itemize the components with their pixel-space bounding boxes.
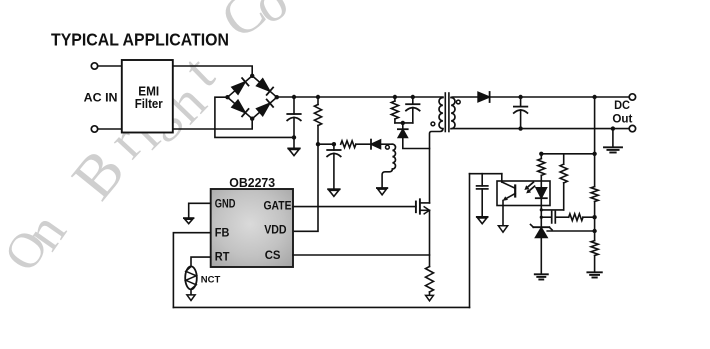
svg-text:FB: FB [215,228,230,240]
resistor R9 current sense [426,267,434,296]
DC Out terminal + [629,94,635,100]
ground arrow opto emitter [498,226,507,232]
wire AC top to EMI [98,65,122,67]
wire VDD node to cap [318,143,334,145]
AC input terminal top [91,63,97,69]
svg-text:OB2273: OB2273 [229,175,275,190]
junction comp left [540,216,543,219]
wire primary bottom to drain [430,129,443,203]
wire D6 to drain node [403,138,430,149]
wire source down [429,210,431,266]
pin label GATE [264,201,292,213]
diode D5 aux [371,140,381,149]
wire to output ground [612,129,614,147]
junction bridge left [225,95,229,99]
junction bridge top [250,74,254,78]
wire R2 to D5 [356,143,371,145]
junction snubber diode [401,121,405,125]
wire divider mid [594,217,596,231]
junction feedback node left [539,152,543,156]
ground arrow under R9 [426,295,434,300]
label Out [612,112,632,126]
earth ground divider [587,272,601,277]
wire FB top line [470,173,502,175]
svg-text:CS: CS [265,250,281,262]
phase dot secondary [456,100,460,104]
wire R7 to cathode node [541,209,563,211]
phase dot aux winding [386,145,390,149]
junction bridge right [275,95,279,99]
resistor R2 aux [341,141,356,148]
svg-text:Filter: Filter [135,97,163,111]
wire bridge left to ground bus [215,97,294,137]
resistor R5 lower divider [591,231,598,272]
capacitor C2 VDD [327,144,341,189]
ground (primary) under C1 [288,148,300,155]
ground under C2 [328,189,340,196]
IC U1 OB2273 body [211,189,293,267]
watermark "On Bright Co" [0,0,298,280]
wire GATE pin [293,206,416,208]
wire ref to divider [547,230,594,232]
bridge diode D1 (left-top) [232,78,249,94]
junction C4 bottom [518,126,522,130]
pin label CS [265,250,281,262]
EMI filter block [122,60,173,133]
earth ground zener [535,274,548,279]
resistor R1 startup [314,97,321,144]
wire AC bottom to EMI [98,128,122,130]
transformer core [445,93,449,132]
junction ref node [592,229,596,233]
capacitor C1 bulk [287,97,301,137]
MOSFET Q1 [416,199,430,214]
bridge diode D4 (bottom-right) [257,100,274,116]
label NCT [201,275,221,286]
resistor R3 snubber [391,97,398,123]
opto light arrow 2 [526,186,534,193]
opto light arrow 1 [524,182,533,190]
opto LED [536,188,547,199]
wire FB pin [173,233,210,308]
AC input terminal bottom [91,126,97,132]
wire EMI top to bridge [173,66,252,76]
aux winding [392,144,395,169]
wire D5 to aux winding [381,143,393,145]
wire feedback top line [541,153,594,155]
pin label FB [215,228,230,240]
wire FB riser right [469,174,471,308]
transformer primary winding [439,98,443,129]
wire NCT to ground [190,289,192,295]
opto phototransistor [502,182,515,201]
capacitor C4 output [514,97,528,129]
junction R1 top [316,95,320,99]
resistor R7 bias [560,154,567,210]
resistor R8 compensation [569,214,595,221]
svg-text:TYPICAL APPLICATION: TYPICAL APPLICATION [51,30,229,50]
svg-text:VDD: VDD [264,225,286,237]
pin label VDD [264,225,286,237]
ground arrow under NCT [187,295,195,301]
wire zener anode to ground [540,238,542,274]
svg-text:NCT: NCT [201,275,221,286]
earth ground output [604,147,622,152]
diode D6 clamp [398,129,408,137]
svg-text:RT: RT [215,251,230,263]
svg-text:DC: DC [614,98,630,112]
wire C1 to ground [293,137,295,148]
svg-text:AC IN: AC IN [84,90,118,104]
junction C2 top [332,142,336,146]
optocoupler U2 box [497,181,550,206]
wire VDD to IC [293,144,318,231]
wire RT pin [191,257,211,266]
wire aux winding to ground [382,169,392,188]
pin label RT [215,251,230,263]
pin label GND [215,198,236,210]
junction comp node [592,215,596,219]
phase dot primary [431,122,435,126]
ground under aux winding [377,188,387,195]
junction bridge bottom [250,117,254,121]
junction output ground [611,126,615,130]
junction feedback node right [592,152,596,156]
svg-text:Out: Out [612,112,632,126]
capacitor C3 snubber [406,97,420,123]
wire collector to FB line [501,174,503,182]
capacitor C5 feedback [477,174,488,217]
wire LED cathode down [540,199,542,228]
resistor R4 upper divider [591,154,598,217]
junction C4 top [518,95,522,99]
bridge rectifier frame [228,76,277,119]
label AC IN [84,90,118,104]
bridge diode D2 (top-right) [257,79,274,95]
junction C1 bottom [292,135,296,139]
wire EMI bottom to bridge [173,119,252,129]
wire divider vertical top [594,97,596,154]
wire secondary bottom rail [451,128,629,130]
thermistor NCT [185,266,197,289]
wire D7 to DC+ [490,96,629,98]
wire emitter to ground [502,201,504,226]
junction divider top [592,95,596,99]
wire FB bottom rail [173,306,469,308]
label DC [614,98,630,112]
wire to D6 [402,123,404,129]
DC Out terminal - [629,125,635,131]
capacitor C6 compensation [541,211,568,223]
wire CS pin [293,254,430,256]
resistor R6 LED series [538,154,545,188]
zener U3 shunt regulator [531,225,553,238]
wire HV rail [277,96,443,98]
wire GND pin [189,203,211,218]
svg-text:GATE: GATE [264,201,292,213]
junction cathode-R7 [540,208,543,211]
junction VDD node [316,142,320,146]
svg-text:GND: GND [215,198,236,210]
diode D7 output [478,92,490,102]
junction R3 top [393,95,397,99]
transformer secondary winding [451,98,455,129]
ground under C5 [477,217,488,224]
wire snubber bottom [395,122,413,124]
bridge diode D3 (left-bottom) [232,100,249,116]
junction C3 top [411,95,415,99]
wire secondary top [451,96,478,99]
junction C1 top [292,95,296,99]
ground under GND pin [184,218,194,224]
title TYPICAL APPLICATION [51,30,229,50]
label OB2273 [229,175,275,190]
